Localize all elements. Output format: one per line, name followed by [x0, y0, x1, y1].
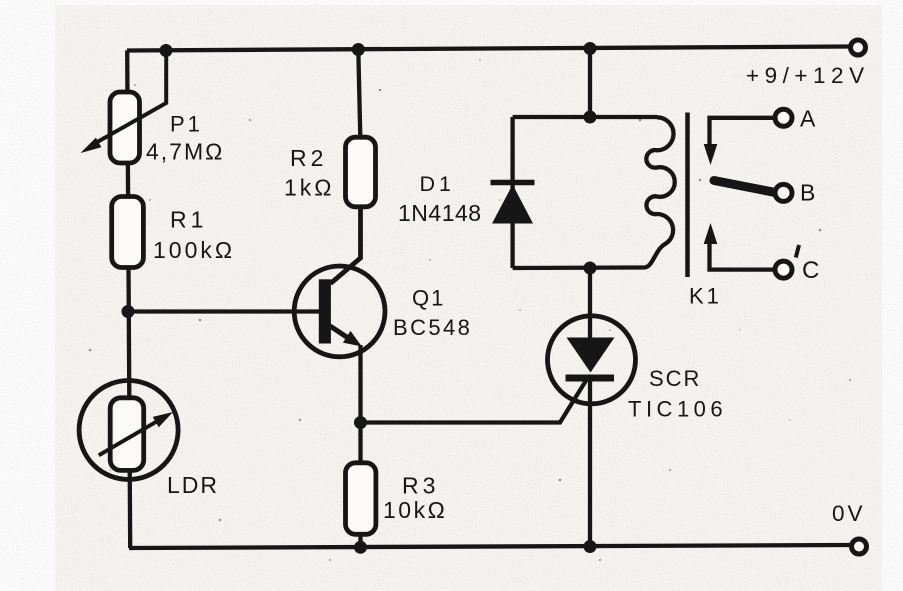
svg-text:P1: P1 — [170, 112, 203, 137]
svg-text:B: B — [800, 180, 815, 206]
svg-text:SCR: SCR — [649, 366, 701, 391]
svg-text:4,7MΩ: 4,7MΩ — [146, 139, 224, 165]
svg-text:Q1: Q1 — [412, 286, 445, 311]
svg-text:TIC106: TIC106 — [628, 397, 727, 422]
svg-text:C: C — [802, 257, 819, 284]
svg-text:+9/+12V: +9/+12V — [746, 63, 870, 88]
svg-text:LDR: LDR — [167, 472, 219, 498]
svg-text:10kΩ: 10kΩ — [383, 497, 447, 523]
svg-text:0V: 0V — [832, 501, 866, 526]
svg-text:D1: D1 — [420, 172, 455, 196]
svg-text:K1: K1 — [689, 284, 722, 309]
svg-text:BC548: BC548 — [393, 315, 472, 340]
svg-text:R1: R1 — [170, 207, 207, 233]
svg-text:A: A — [800, 106, 816, 132]
svg-text:100kΩ: 100kΩ — [153, 237, 235, 263]
svg-text:R3: R3 — [402, 473, 439, 499]
svg-text:1kΩ: 1kΩ — [284, 175, 335, 201]
svg-text:1N4148: 1N4148 — [398, 200, 482, 226]
svg-text:R2: R2 — [290, 145, 327, 171]
